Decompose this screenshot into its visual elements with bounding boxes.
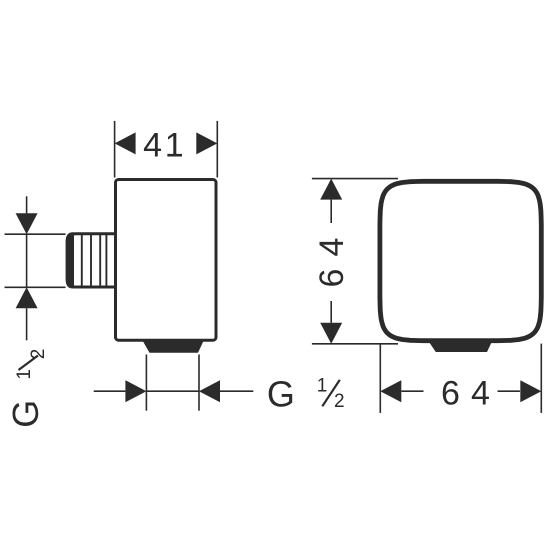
dimension line bottom middle segment <box>146 390 199 392</box>
arrowhead 64h right <box>520 380 541 402</box>
extension line 64 top <box>312 178 398 180</box>
arrowhead 64h left <box>380 380 401 402</box>
dimension line 64h right stub <box>498 390 520 392</box>
dimension line 64 vertical upper stub <box>330 200 332 223</box>
extension line 64h right <box>540 344 542 413</box>
extension line 64 bottom <box>312 343 398 345</box>
thread line 1 <box>81 235 83 287</box>
arrowhead 41 left <box>115 132 136 154</box>
extension line 41 left <box>114 121 116 178</box>
threaded nipple outline <box>67 234 114 287</box>
dimension text 41 <box>143 127 184 165</box>
fraction slash <box>322 380 340 407</box>
nipple chamfer cap <box>66 232 74 288</box>
svg-text:2: 2 <box>334 391 345 412</box>
arrowhead bottom right-pointing <box>125 380 146 402</box>
dimension line bottom left segment <box>94 390 126 392</box>
thread line 2 <box>90 235 92 287</box>
arrowhead bottom left-pointing <box>199 380 220 402</box>
spout outlet (front view) <box>428 341 492 353</box>
thread line 3 <box>99 235 101 287</box>
dimension line bottom right segment <box>220 390 253 392</box>
arrowhead 64 down <box>320 323 342 344</box>
dimension line G1/2 vertical middle segment <box>26 234 28 287</box>
svg-text:1: 1 <box>14 369 35 380</box>
dimension text 64 horizontal <box>441 374 490 412</box>
extension line 64h left <box>379 344 381 413</box>
extension line outlet right <box>198 355 200 411</box>
squircle face (front view) <box>380 181 541 340</box>
svg-text:4: 4 <box>471 374 490 412</box>
dimension line G1/2 vertical upper segment <box>26 196 28 213</box>
extension line nipple top <box>5 233 66 235</box>
extension line nipple bottom <box>5 286 66 288</box>
svg-text:G: G <box>267 374 295 415</box>
extension line 41 right <box>216 121 218 178</box>
svg-text:G: G <box>5 400 46 428</box>
svg-text:6: 6 <box>313 269 351 288</box>
body rectangle (side view) <box>116 180 217 341</box>
arrowhead 64 up <box>320 179 342 200</box>
dimension text 64 rotated <box>313 238 351 288</box>
svg-text:1: 1 <box>317 376 328 397</box>
svg-text:4: 4 <box>143 127 162 165</box>
svg-text:2: 2 <box>28 349 49 360</box>
arrowhead G1/2 down <box>16 213 38 234</box>
arrowhead 41 right <box>196 132 217 154</box>
dimension line 64 vertical lower stub <box>330 301 332 323</box>
svg-text:1: 1 <box>165 127 184 165</box>
svg-text:4: 4 <box>313 238 351 257</box>
label G 1/2 rotated <box>5 349 49 428</box>
thread line 4 <box>105 235 107 287</box>
extension line outlet left <box>145 355 147 411</box>
svg-text:6: 6 <box>441 374 460 412</box>
dimension line 64h left stub <box>401 390 423 392</box>
dimension line G1/2 vertical lower segment <box>26 308 28 340</box>
spout outlet (side view) <box>143 341 204 353</box>
arrowhead G1/2 up <box>16 287 38 308</box>
